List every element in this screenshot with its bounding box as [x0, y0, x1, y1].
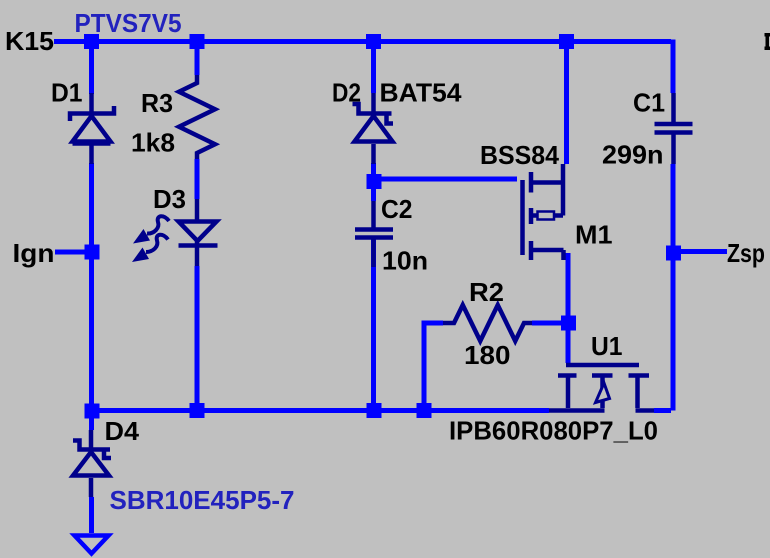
- svg-text:SBR10E45P5-7: SBR10E45P5-7: [110, 487, 295, 515]
- svg-text:IPB60R080P7_L0: IPB60R080P7_L0: [449, 418, 658, 446]
- svg-text:Zsp: Zsp: [727, 240, 765, 268]
- svg-text:PTVS7V5: PTVS7V5: [75, 10, 182, 38]
- svg-text:R2: R2: [469, 279, 504, 307]
- svg-text:BAT54: BAT54: [380, 80, 463, 108]
- svg-text:D1: D1: [51, 80, 83, 108]
- svg-text:299n: 299n: [602, 142, 664, 170]
- svg-text:R3: R3: [141, 90, 173, 118]
- svg-text:K15: K15: [5, 28, 54, 56]
- svg-text:1k8: 1k8: [131, 130, 175, 158]
- svg-text:D3: D3: [153, 186, 186, 214]
- svg-text:Ign: Ign: [13, 240, 55, 268]
- svg-text:D2: D2: [332, 80, 361, 108]
- svg-text:D4: D4: [105, 418, 140, 446]
- svg-text:U1: U1: [591, 333, 623, 361]
- svg-text:BSS84: BSS84: [480, 142, 560, 170]
- svg-text:180: 180: [464, 342, 511, 370]
- svg-text:M1: M1: [575, 222, 613, 250]
- svg-text:C2: C2: [381, 196, 413, 224]
- svg-text:10n: 10n: [382, 248, 428, 276]
- svg-text:C1: C1: [633, 90, 665, 118]
